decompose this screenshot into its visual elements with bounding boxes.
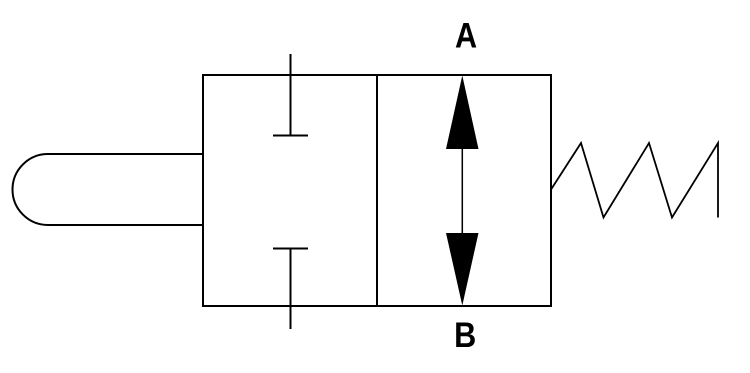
valve body (two-position envelope) (203, 75, 551, 306)
return spring (551, 143, 718, 218)
arrowhead down (446, 233, 479, 306)
wire (461, 145, 463, 237)
flow path double arrow (right cell) (446, 76, 479, 306)
svg-text:A: A (455, 17, 477, 57)
blocked port T symbol (top, left cell) (273, 54, 308, 136)
position divider wire (376, 75, 378, 306)
push-button actuator (capsule) (12, 154, 203, 225)
arrowhead up (446, 76, 479, 150)
blocked port T symbol (bottom, left cell) (273, 248, 308, 329)
svg-text:B: B (454, 316, 476, 356)
